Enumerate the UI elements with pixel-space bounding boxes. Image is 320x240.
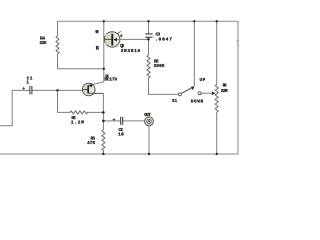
svg-text:390K: 390K — [154, 64, 165, 69]
svg-text:S1: S1 — [172, 100, 178, 104]
transistor Q1 BC179 — [82, 75, 117, 96]
wire input stub from left edge — [0, 90, 83, 125]
node Q1 collector/C2 — [102, 120, 105, 123]
svg-text:S: S — [120, 35, 123, 39]
resistor R2 branch wire — [58, 90, 104, 112]
wire right edge vertical — [237, 21, 239, 154]
connector OUT jack — [144, 114, 153, 126]
svg-text:DOWN: DOWN — [191, 99, 204, 104]
svg-text:BC179: BC179 — [105, 79, 118, 83]
wire top supply rail — [58, 20, 239, 22]
svg-text:10: 10 — [118, 133, 124, 138]
capacitor C2 — [121, 117, 123, 125]
wiper arrow into R6 — [212, 92, 216, 96]
switch S1 — [172, 78, 206, 104]
capacitor C3 branch wire — [148, 21, 150, 55]
resistor R4 branch wire — [58, 21, 104, 69]
wire DOWN wiper to R6 — [201, 92, 211, 94]
svg-text:22K: 22K — [40, 41, 47, 46]
capacitor C1 — [30, 86, 32, 94]
node rail/UP wire — [193, 20, 195, 22]
resistor R6 — [215, 85, 218, 113]
wire bottom ground rail — [0, 153, 239, 155]
node rail/C3 — [147, 20, 149, 22]
svg-text:1: 1 — [26, 82, 29, 86]
wire R5 to switch pole — [149, 78, 179, 95]
wire OUT to ground rail — [148, 126, 150, 154]
svg-text:.0047: .0047 — [155, 37, 172, 43]
node R4/main vertical — [103, 68, 105, 70]
node R2/Q1 collector — [102, 111, 105, 114]
wire Q2 output to C3 node — [117, 38, 149, 40]
svg-text:47K: 47K — [87, 141, 95, 146]
svg-text:22M: 22M — [221, 89, 228, 94]
resistor R5 — [147, 55, 150, 78]
transistor Q2 2N3819 — [104, 31, 140, 54]
svg-text:OUT: OUT — [144, 114, 151, 118]
wire UP terminal vertical — [193, 21, 195, 86]
node rail/main vertical — [103, 20, 105, 22]
svg-text:UP: UP — [200, 78, 206, 83]
resistor R3 — [102, 130, 105, 154]
svg-text:1.2M: 1.2M — [71, 121, 84, 126]
node C3/Q2 wire — [147, 38, 150, 41]
battery tick marks right edge — [236, 41, 238, 45]
svg-text:B: B — [96, 46, 99, 52]
resistor R2 — [70, 111, 88, 114]
capacitor C3 — [145, 34, 153, 37]
capacitor C2 branch wire — [103, 120, 144, 122]
node C1 wire / R2 branch — [56, 89, 59, 92]
svg-text:2N3819: 2N3819 — [121, 48, 141, 54]
node rail/R6 — [216, 20, 218, 22]
resistor R4 — [56, 36, 59, 54]
node R6/ground rail — [216, 153, 218, 155]
node marker asterisk — [95, 30, 98, 33]
wire Q1 collector vertical down — [102, 93, 104, 130]
wire main vertical (rail to Q1 collector, Q2 gate tap) — [89, 21, 104, 85]
resistor R6 branch wire — [216, 21, 218, 154]
node OUT/ground rail — [148, 153, 150, 155]
node R3/ground rail — [102, 153, 104, 155]
